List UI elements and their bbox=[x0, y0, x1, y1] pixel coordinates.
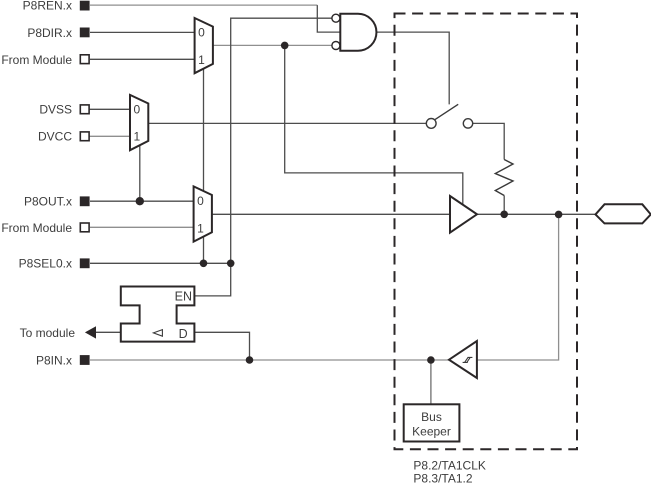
wire DVSS to mux U2 input 0 bbox=[89, 108, 130, 110]
wire From Module to mux U3 input 1 bbox=[90, 226, 194, 228]
svg-text:To module: To module bbox=[20, 326, 76, 340]
svg-text:Bus: Bus bbox=[421, 410, 442, 424]
svg-text:D: D bbox=[179, 327, 188, 341]
Bus Keeper block bbox=[404, 404, 460, 441]
resistor R1 bbox=[495, 160, 513, 196]
svg-text:From Module: From Module bbox=[1, 221, 72, 235]
terminal square P8IN.x bbox=[80, 355, 90, 365]
wire P8OUT.x to mux U3 input 0 bbox=[90, 200, 194, 202]
wire AND output to switch control bbox=[377, 32, 450, 104]
terminal square P8OUT.x bbox=[80, 196, 90, 206]
wire From Module to mux U1 input 1 bbox=[90, 58, 195, 60]
svg-text:Keeper: Keeper bbox=[412, 424, 451, 438]
svg-text:1: 1 bbox=[134, 130, 141, 144]
wire switch to resistor bbox=[473, 123, 505, 159]
terminal square P8DIR.x bbox=[80, 28, 90, 38]
terminal square P8SEL0.x bbox=[80, 258, 90, 268]
wire resistor to pad line bbox=[503, 196, 505, 215]
To module arrow bbox=[85, 326, 96, 338]
Schmitt hysteresis symbol bbox=[463, 357, 473, 362]
wire P8SEL0 down to latch EN bbox=[194, 263, 230, 296]
terminal square P8REN.x bbox=[80, 1, 90, 11]
switch S1 left contact bbox=[426, 119, 436, 129]
AND gate bottom input bubble bbox=[332, 42, 340, 50]
node latch D junction bbox=[246, 356, 254, 364]
wire P8SEL0 up to AND top bubble bbox=[231, 18, 332, 263]
wire P8SEL0.x bbox=[90, 262, 232, 264]
wire P8DIR.x to mux U1 input 0 bbox=[90, 31, 195, 33]
wire latch to To module arrow bbox=[96, 331, 121, 333]
wire direction enable to output driver bbox=[285, 45, 463, 204]
svg-text:P8REN.x: P8REN.x bbox=[23, 0, 72, 13]
node P8SEL0 branch junction bbox=[227, 260, 235, 268]
AND gate U4 bbox=[340, 14, 376, 51]
wire output driver to pad bbox=[477, 213, 596, 215]
svg-text:P8OUT.x: P8OUT.x bbox=[24, 195, 72, 209]
svg-text:P8DIR.x: P8DIR.x bbox=[27, 26, 72, 40]
wire P8REN.x horizontal bbox=[90, 4, 317, 6]
svg-text:0: 0 bbox=[134, 103, 141, 117]
svg-text:P8.2/TA1CLK: P8.2/TA1CLK bbox=[413, 458, 485, 472]
svg-text:From Module: From Module bbox=[1, 53, 72, 67]
switch S1 lever bbox=[435, 104, 458, 119]
svg-text:EN: EN bbox=[175, 289, 192, 303]
terminal square From Module 2 bbox=[80, 223, 89, 232]
wire latch D to P8IN line bbox=[194, 332, 249, 360]
node bus keeper junction bbox=[427, 356, 435, 364]
terminal square DVSS bbox=[80, 105, 89, 114]
mux U2 (DVSS / DVCC) bbox=[130, 95, 148, 150]
pad hexagon bbox=[596, 204, 651, 223]
svg-text:DVCC: DVCC bbox=[38, 130, 72, 144]
wire P8REN.x down into AND middle input bbox=[317, 5, 340, 32]
svg-text:1: 1 bbox=[198, 53, 205, 67]
svg-text:DVSS: DVSS bbox=[39, 103, 72, 117]
wire mux U2 select from P8OUT line bbox=[139, 145, 141, 201]
wire pad down to Schmitt input bbox=[477, 214, 559, 360]
svg-text:P8IN.x: P8IN.x bbox=[36, 354, 72, 368]
node P8SEL0 mux select junction bbox=[200, 260, 208, 268]
wire P8IN.x line bbox=[90, 359, 449, 361]
Schmitt trigger input buffer U7 bbox=[449, 341, 477, 378]
svg-text:0: 0 bbox=[197, 194, 204, 208]
wire mux U2 output to switch bbox=[148, 122, 426, 124]
switch S1 right contact bbox=[463, 119, 472, 128]
svg-text:1: 1 bbox=[197, 221, 204, 235]
wire mux U1 select from P8SEL0 line bbox=[203, 69, 205, 263]
wire mux U1 output to AND bottom bubble bbox=[213, 44, 332, 46]
node P8OUT select junction bbox=[136, 197, 144, 205]
node resistor to pad junction bbox=[500, 211, 508, 219]
AND gate top input bubble bbox=[332, 14, 340, 22]
node direction enable junction bbox=[281, 42, 289, 50]
terminal square DVCC bbox=[80, 132, 89, 141]
svg-text:P8SEL0.x: P8SEL0.x bbox=[19, 257, 72, 271]
mux U3 (P8OUT / From Module) bbox=[194, 186, 212, 241]
dashed box pad boundary bbox=[395, 14, 578, 450]
node pad input junction bbox=[555, 211, 563, 219]
mux U1 (P8DIR / From Module) bbox=[195, 18, 213, 73]
wire P8IN line down to Bus Keeper bbox=[430, 360, 432, 404]
terminal square From Module 1 bbox=[80, 55, 89, 64]
svg-text:P8.3/TA1.2: P8.3/TA1.2 bbox=[413, 472, 472, 483]
wire mux U3 output to output driver bbox=[212, 213, 450, 215]
svg-text:0: 0 bbox=[198, 26, 205, 40]
latch U6 (EN / D) bbox=[121, 287, 195, 342]
latch transparent symbol bbox=[153, 330, 162, 337]
output driver buffer U5 bbox=[450, 196, 477, 233]
wire DVCC to mux U2 input 1 bbox=[89, 135, 130, 137]
